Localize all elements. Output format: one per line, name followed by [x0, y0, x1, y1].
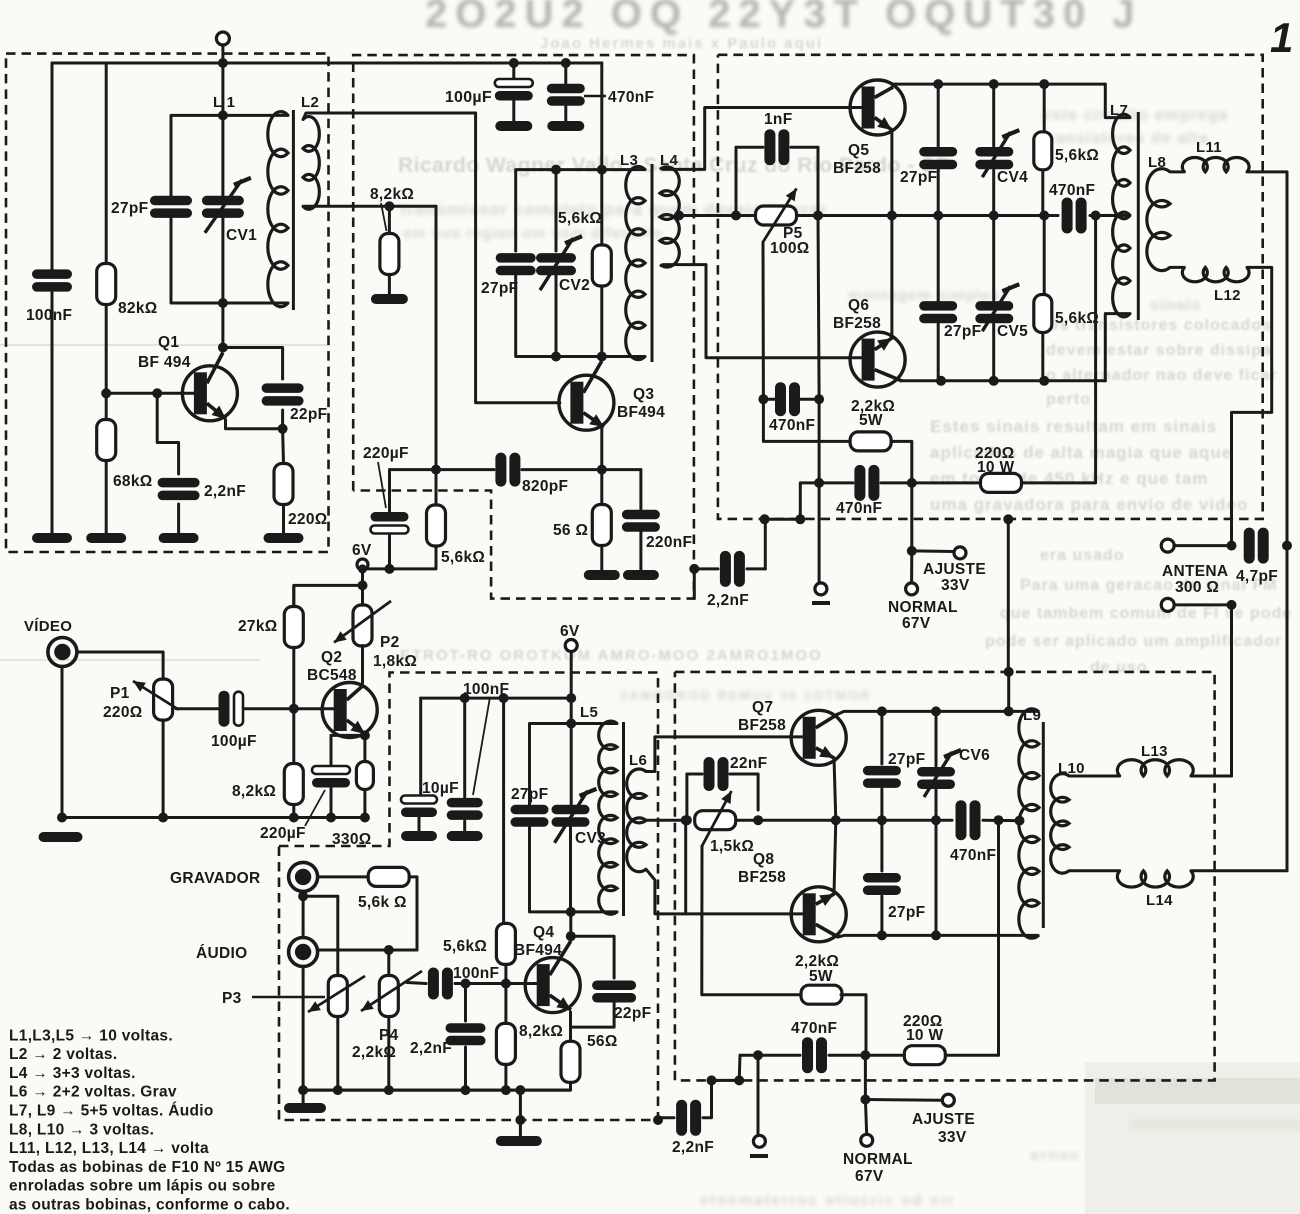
inductor L13: [1117, 760, 1193, 776]
svg-text:BC548: BC548: [307, 667, 357, 684]
svg-text:L1,L3,L5 → 10 voltas.: L1,L3,L5 → 10 voltas.: [9, 1027, 173, 1044]
label 8,2kΩ (video): [232, 783, 276, 800]
svg-text:enroladas sobre um lápis ou so: enroladas sobre um lápis ou sobre: [9, 1178, 276, 1195]
svg-text:Q2: Q2: [321, 649, 342, 666]
capacitor 100µF (supply): [495, 63, 533, 122]
label 56Ω (Q4): [587, 1033, 618, 1050]
capacitor 470nF (supply Q5/Q6): [854, 465, 879, 501]
node dot Q2 emitter: [360, 730, 370, 740]
svg-text:L7: L7: [1110, 102, 1128, 119]
terminal 6V (audio): [560, 623, 580, 652]
label 2,2nF (osc out): [707, 592, 749, 609]
label 5,6kΩ (osc tank): [558, 210, 602, 227]
terminal B+ top: [216, 32, 229, 63]
svg-text:BF494: BF494: [514, 942, 562, 959]
wire Q8 collector bus: [838, 935, 1038, 937]
node dot 6V / 27k branch: [294, 580, 368, 607]
node dot 6V bus 5,6k drop: [499, 693, 509, 703]
potentiometer P5 100Ω: [756, 189, 797, 243]
inductor L7: [1105, 84, 1130, 381]
wire Q3 tank top: [516, 170, 645, 251]
svg-text:22nF: 22nF: [730, 755, 767, 772]
wire Q6 emitter riser: [890, 216, 893, 339]
svg-text:L7, L9 → 5+5 voltas. Áudio: L7, L9 → 5+5 voltas. Áudio: [9, 1103, 214, 1120]
node dot 470nF/supply: [994, 815, 1004, 825]
wire CV3 tank top: [530, 724, 618, 807]
svg-text:2,2nF: 2,2nF: [410, 1040, 452, 1057]
label 22nF: [730, 755, 767, 772]
wire 8,2k to ground: [388, 275, 391, 297]
wire NORMAL drop: [910, 551, 913, 583]
resistor 82kΩ: [97, 264, 116, 305]
node dot Q4 collector: [566, 931, 576, 941]
label L10: [1058, 760, 1085, 777]
svg-text:L12: L12: [1214, 287, 1241, 304]
wire left drop to 100nF: [51, 63, 54, 269]
wire Q4 emitter: [569, 1012, 572, 1041]
wire 27pF to tank bottom: [171, 218, 288, 304]
node dot coll bus 27pF (Q7): [877, 706, 887, 716]
wire Q2 emitter to 330Ω: [363, 735, 366, 762]
node dot áudio/P4: [384, 945, 394, 955]
wire L1 tank top: [171, 115, 288, 196]
node dot coll2 bus 27pF: [936, 376, 946, 386]
resistor 5,6kΩ (Q4 bias): [496, 923, 515, 983]
wire L6 tap: [646, 815, 691, 914]
label L9: [1023, 707, 1041, 724]
svg-text:em torno de 450 kHz e que tam: em torno de 450 kHz e que tam: [930, 469, 1208, 488]
label 2,2nF (audio): [410, 1040, 452, 1057]
capacitor 220µF (osc): [371, 470, 409, 569]
node dot coll bus 5,6k: [1039, 79, 1049, 89]
svg-text:BF 494: BF 494: [138, 354, 191, 371]
label P1: [103, 685, 143, 721]
node dot rail 8,2k: [501, 1085, 511, 1095]
label 100nF (audio): [453, 965, 499, 982]
node dot coll bus 27pF: [933, 79, 943, 89]
label 2,2kΩ 5W (Q7/Q8): [795, 953, 839, 985]
jack VÍDEO: [48, 638, 77, 667]
svg-text:5,6kΩ: 5,6kΩ: [1055, 147, 1099, 164]
resistor 5,6kΩ (Q6): [1034, 216, 1052, 381]
resistor 220Ω 10W (Q7/Q8): [904, 1046, 945, 1065]
svg-text:1,5kΩ: 1,5kΩ: [710, 838, 754, 855]
wire 2,2k to NORMAL riser: [891, 441, 912, 551]
svg-text:ÁUDIO: ÁUDIO: [196, 945, 247, 962]
wire 1nF left leg: [735, 147, 738, 215]
wire 820pF row left: [390, 468, 495, 471]
wire L10 top to L13: [1069, 775, 1120, 778]
svg-text:L4 → 3+3 voltas.: L4 → 3+3 voltas.: [9, 1065, 136, 1082]
node dot top bus / 100uF: [509, 58, 519, 68]
inductor L6: [627, 769, 646, 872]
inductor L4: [660, 167, 679, 267]
variable capacitor CV2: [536, 170, 582, 357]
svg-text:P3: P3: [222, 990, 242, 1007]
node dot tank top 5,6k: [597, 165, 607, 175]
node dot AJUSTE branch: [907, 546, 917, 556]
label 27kΩ: [238, 618, 278, 635]
label AJUSTE 33V (top): [923, 561, 986, 594]
svg-text:27pF: 27pF: [511, 786, 548, 803]
label L8: [1148, 154, 1166, 171]
svg-text:22pF: 22pF: [290, 406, 327, 423]
capacitor 470nF (center bus): [956, 800, 981, 840]
resistor 5,6kΩ (osc emitter): [392, 470, 446, 569]
label 68kΩ: [113, 473, 153, 490]
node dot 470nF left: [1039, 211, 1049, 221]
wire L6 top to Q7 base: [646, 737, 806, 772]
svg-text:100nF: 100nF: [453, 965, 499, 982]
node dot coll2 bus CV6: [931, 930, 941, 940]
capacitor 220µF (Q2 emitter): [312, 735, 365, 817]
node dot 820pF row / 5,6k: [431, 465, 441, 475]
wire top supply bus: [52, 62, 602, 65]
node dot antenna top: [1227, 541, 1237, 551]
svg-text:8,2kΩ: 8,2kΩ: [232, 783, 276, 800]
wire 6V bus: [421, 698, 572, 795]
terminal chassis (Q5/Q6): [812, 483, 830, 603]
label 5,6kΩ (gravador): [358, 894, 407, 911]
label L1: [213, 94, 235, 111]
node dot bus 22nF left: [682, 815, 692, 825]
potentiometer P2 1,8kΩ: [334, 585, 391, 646]
ground below 220Ω: [264, 533, 304, 543]
core line L9/L10: [1042, 722, 1045, 928]
wire supply drop into Q7 box: [1004, 667, 1014, 717]
node dot coll2 bus 5,6k: [1039, 376, 1049, 386]
label 100nF (6V): [463, 681, 509, 795]
capacitor 27pF (Q3 tank): [496, 253, 536, 275]
node dot 6V bus 100nF: [460, 693, 470, 703]
svg-text:BF258: BF258: [833, 160, 881, 177]
label 8,2kΩ (osc): [370, 186, 414, 231]
inductor L11: [1182, 157, 1249, 171]
label 100µF: [445, 89, 492, 106]
label GRAVADOR: [170, 870, 261, 887]
node dot coll2 bus 27pF (Q8): [877, 930, 887, 940]
label 5,6kΩ (Q5): [1055, 147, 1099, 164]
inductor L12: [1182, 267, 1249, 281]
node dot P5 bus emitters: [887, 211, 897, 221]
wire antenna bottom: [1174, 603, 1232, 606]
wire terminal line to L1 top: [221, 63, 224, 115]
capacitor 27pF (Q8): [863, 820, 901, 935]
node dot 6V bus stem: [566, 693, 576, 703]
label 8,2kΩ (Q4): [519, 1023, 563, 1040]
svg-text:27pF: 27pF: [900, 169, 937, 186]
wire ground rail (video): [62, 667, 365, 818]
wire L4 bottom to Q6 base: [663, 265, 863, 358]
svg-text:8,2kΩ: 8,2kΩ: [370, 186, 414, 203]
svg-text:L11, L12, L13, L14 → volta: L11, L12, L13, L14 → volta: [9, 1140, 209, 1157]
wire P1 wiper to 100µF: [176, 707, 221, 710]
label CV2: [559, 277, 590, 294]
label CV1: [226, 227, 257, 244]
label 100µF (video): [211, 733, 257, 750]
wire 6V stem: [570, 652, 573, 724]
label 220µF (osc): [363, 445, 409, 508]
label CV4: [997, 169, 1028, 186]
svg-text:5,6kΩ: 5,6kΩ: [558, 210, 602, 227]
wire Q1 base: [106, 392, 194, 395]
dashed enclosure box (Q7/Q8 sound carrier stage): [675, 672, 1215, 1081]
node dot grav/P3: [298, 891, 308, 901]
node dot L7 tap riser: [1091, 211, 1101, 221]
capacitor 220nF (osc): [622, 470, 660, 572]
node dot tank bottom CV2: [551, 352, 561, 362]
ground audio rail left: [284, 1090, 326, 1113]
resistor 330Ω: [356, 762, 373, 790]
terminal chassis (Q7/Q8): [750, 1055, 768, 1156]
terminal NORMAL 67V (bottom): [861, 1134, 873, 1146]
node dot base / 2,2nF branch: [152, 388, 162, 398]
wire 27pF to tank bottom: [516, 275, 645, 357]
wire 820pF row right: [522, 468, 641, 471]
resistor 68kΩ: [97, 420, 116, 461]
wire audio common rail: [303, 1089, 570, 1092]
node dot bus 22nF right: [753, 815, 763, 825]
svg-text:L13: L13: [1141, 743, 1168, 760]
ground video rail: [39, 832, 83, 842]
transistor Q1 BF494: [182, 353, 237, 421]
terminal AJUSTE 33V (top): [954, 547, 966, 559]
capacitor 1nF: [736, 129, 818, 165]
label 470nF (L7 tap): [1049, 182, 1095, 199]
svg-text:Q4: Q4: [533, 924, 554, 941]
svg-text:5W: 5W: [809, 968, 833, 985]
svg-text:L11: L11: [1196, 139, 1222, 156]
core line L1/L2: [292, 110, 295, 310]
label Q5: [833, 142, 881, 177]
dashed enclosure box (Q3 oscillator stage): [353, 55, 694, 599]
label 2,2nF (sound out): [672, 1139, 714, 1156]
label 4,7pF: [1236, 568, 1278, 585]
capacitor 27pF (Q7): [863, 711, 901, 820]
wire L4 top to Q5 base: [663, 108, 863, 170]
node dot rail 330Ω: [360, 813, 370, 823]
label Q2: [307, 649, 357, 684]
capacitor 22nF: [687, 757, 758, 820]
potentiometer P4 2,2kΩ: [361, 971, 422, 1017]
label 820pF: [522, 478, 568, 495]
wire L14 to riser: [1191, 869, 1287, 872]
svg-text:de uso: de uso: [1090, 659, 1148, 676]
svg-text:Q7: Q7: [752, 699, 773, 716]
svg-text:2O2U2 OQ 22Y3T OQUT30 J: 2O2U2 OQ 22Y3T OQUT30 J: [425, 0, 1143, 36]
wire 470nF to riser: [881, 481, 912, 484]
resistor 56Ω (Q4): [561, 1041, 580, 1082]
svg-text:56Ω: 56Ω: [587, 1033, 618, 1050]
transistor Q2 BC548: [322, 646, 377, 738]
svg-text:L4: L4: [660, 152, 678, 169]
node dot coll2 bus CV5: [989, 376, 999, 386]
wire áudio stem: [302, 967, 305, 1091]
wire L4 tap to P5 bus: [679, 214, 756, 217]
node dot P5 bus 27pF: [933, 211, 943, 221]
wire 2,2nF branch: [157, 393, 178, 474]
svg-text:100nF: 100nF: [26, 307, 72, 324]
wire L8 top to L11: [1170, 170, 1184, 173]
svg-text:100Ω: 100Ω: [770, 240, 810, 257]
svg-text:6V: 6V: [352, 542, 372, 559]
potentiometer P3: [308, 976, 365, 1017]
wire AJUSTE branch (Q7/Q8): [860, 1055, 941, 1104]
label 470nF (supply): [584, 89, 654, 106]
resistor 5,6kΩ (osc tank): [592, 170, 611, 357]
resistor 8,2kΩ (video): [284, 709, 303, 818]
svg-text:2,2nF: 2,2nF: [204, 483, 246, 500]
wire Q7 emitter drop: [834, 758, 836, 820]
resistor 56Ω (osc): [592, 470, 611, 572]
svg-text:68kΩ: 68kΩ: [113, 473, 153, 490]
node dot rail 8,2k: [289, 813, 299, 823]
label 5,6kΩ (Q6): [1055, 310, 1099, 327]
capacitor 100nF (audio coupling): [428, 968, 453, 1000]
node dot riser 470nF row: [907, 478, 917, 488]
wire gravador stem: [302, 891, 305, 937]
label 220Ω 10W: [975, 445, 1015, 476]
jack ÁUDIO: [289, 938, 318, 967]
label 22pF (Q1): [290, 406, 327, 423]
label L3: [620, 152, 638, 169]
ground audio box bottom: [496, 1085, 542, 1146]
node dot Q2 base: [289, 704, 299, 714]
svg-text:ANTENA: ANTENA: [1162, 563, 1228, 580]
label 5,6kΩ (Q4 bias): [443, 938, 487, 955]
resistor 2,2kΩ 5W (Q7/Q8): [801, 985, 842, 1004]
wire antenna top: [1174, 544, 1232, 547]
label 10µF: [422, 780, 459, 797]
ground below 2,2nF: [159, 533, 199, 543]
wire 4,7pF to L14 riser: [1286, 546, 1289, 871]
label L6: [629, 752, 647, 769]
capacitor 10µF: [401, 796, 437, 834]
svg-text:em sua regiao um som diferente: em sua regiao um som diferente: [403, 225, 663, 242]
svg-text:27pF: 27pF: [888, 904, 925, 921]
node dot 4,7pF right: [1282, 541, 1292, 551]
wire 1nF right leg: [817, 147, 820, 215]
svg-text:2,2nF: 2,2nF: [672, 1139, 714, 1156]
label P5: [770, 225, 810, 257]
node dot tank bottom: [218, 298, 228, 308]
svg-text:5W: 5W: [859, 412, 883, 429]
capacitor 27pF (Q6): [919, 216, 957, 381]
label AJUSTE 33V (bottom): [912, 1111, 975, 1146]
transistor Q5 BF258: [850, 80, 905, 135]
wire osc out riser: [694, 519, 765, 598]
svg-text:L9: L9: [1023, 707, 1041, 724]
svg-text:5,6kΩ: 5,6kΩ: [1055, 310, 1099, 327]
label 27pF (video tank): [511, 786, 548, 803]
svg-text:220Ω: 220Ω: [288, 511, 328, 528]
legend coil winding notes: [9, 1027, 290, 1213]
dashed enclosure box (Q1 RF stage): [6, 54, 329, 552]
label 22pF (Q4): [614, 1005, 651, 1022]
inductor L8: [1147, 169, 1170, 271]
wire 82k to base node: [105, 305, 108, 394]
label 470nF (Q7/Q8 supply): [791, 1020, 837, 1037]
wire tank to Q4 collector: [569, 912, 572, 936]
label 27pF (Q5): [900, 169, 937, 186]
label L13: [1141, 743, 1168, 760]
svg-text:220nF: 220nF: [646, 534, 692, 551]
wire L8 bottom to L12: [1170, 266, 1184, 269]
wire 22pF to emitter node: [281, 410, 284, 429]
svg-text:CV4: CV4: [997, 169, 1028, 186]
node dot P5 bus 1nF: [813, 211, 823, 221]
node dot L4 center tap: [674, 211, 684, 221]
node dot tank top / CV1 line: [218, 110, 228, 120]
node dot rail P1: [158, 721, 168, 823]
wire wiper node down: [763, 399, 850, 441]
label 470nF (P5 wiper): [769, 417, 815, 434]
wire L11 to right riser: [1247, 172, 1287, 546]
wire emitter-bus drop: [818, 216, 819, 400]
svg-text:L14: L14: [1146, 892, 1173, 909]
label 220Ω 10W (Q7/Q8): [903, 1013, 943, 1044]
label 470nF (supply Q5/Q6): [836, 500, 882, 517]
transistor Q4 BF494: [525, 941, 580, 1013]
wire 100nF to Q4 base: [455, 982, 537, 985]
ground below 56Ω: [584, 570, 620, 580]
node dot 470nF right: [814, 394, 824, 404]
core line L3/L4: [651, 164, 654, 362]
svg-text:BF494: BF494: [617, 404, 665, 421]
wire 68k to ground: [105, 461, 108, 536]
node dot bus CV6 mid: [931, 815, 941, 825]
wire antenna-bottom riser to L13: [1230, 605, 1233, 776]
svg-text:67V: 67V: [902, 615, 931, 632]
capacitor 27pF (video tank): [511, 805, 549, 827]
wire drop to 82k: [105, 63, 108, 264]
svg-text:6V: 6V: [560, 623, 580, 640]
node dot tank bottom collector: [597, 352, 607, 362]
wire 56Ω to rail: [303, 1083, 570, 1091]
svg-text:Q8: Q8: [753, 851, 774, 868]
ground below 100nF: [32, 533, 72, 543]
svg-text:100µF: 100µF: [211, 733, 257, 750]
resistor 8,2kΩ (osc): [380, 234, 399, 275]
svg-text:470nF: 470nF: [836, 500, 882, 517]
node dot supply tap: [1003, 514, 1013, 672]
svg-text:10µF: 10µF: [422, 780, 459, 797]
svg-text:470nF: 470nF: [769, 417, 815, 434]
svg-text:BF258: BF258: [738, 717, 786, 734]
label L14: [1146, 892, 1173, 909]
wire Q5 collector bus: [893, 83, 1105, 87]
terminal antenna bottom: [1161, 598, 1174, 611]
svg-text:L6 → 2+2 voltas. Grav: L6 → 2+2 voltas. Grav: [9, 1084, 177, 1101]
wire L10 bottom to L14: [1069, 869, 1120, 872]
wire emitter node down: [281, 429, 285, 464]
transistor Q8 BF258: [791, 887, 846, 942]
label Q1: [138, 334, 191, 371]
svg-text:33V: 33V: [941, 577, 970, 594]
ground below 68k: [86, 533, 126, 543]
label CV3: [575, 830, 606, 847]
svg-text:220µF: 220µF: [260, 825, 306, 842]
svg-text:CV5: CV5: [997, 323, 1028, 340]
label 220nF: [646, 534, 692, 551]
label P2: [373, 634, 417, 670]
svg-text:L3: L3: [620, 152, 638, 169]
variable capacitor CV1: [202, 115, 251, 303]
svg-text:pode ser aplicado um amplifica: pode ser aplicado um amplificador: [985, 633, 1282, 650]
terminal 6V (osc): [352, 542, 372, 605]
label 27pF (Q7): [888, 751, 925, 768]
node dot coll bus CV6: [931, 706, 941, 716]
